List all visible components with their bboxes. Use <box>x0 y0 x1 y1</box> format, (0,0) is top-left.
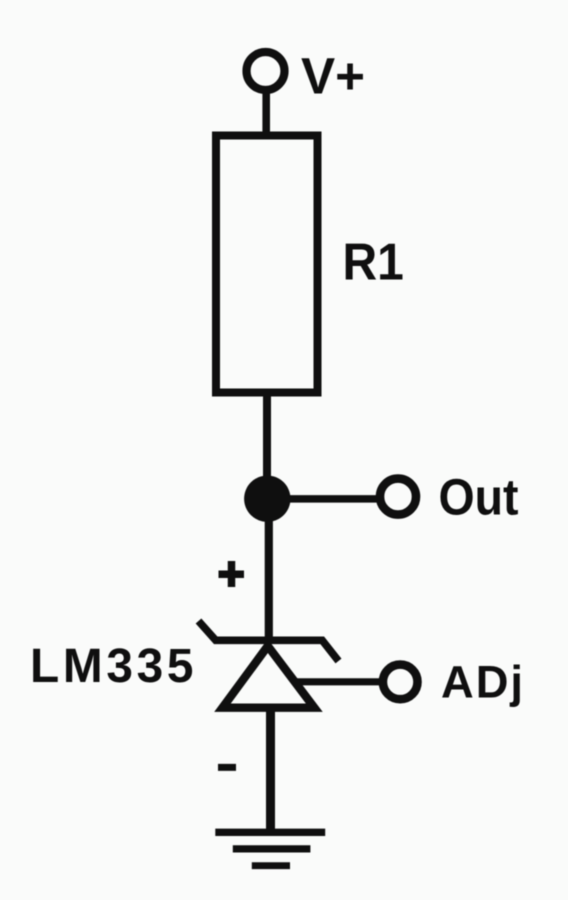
LM335 diode triangle <box>223 646 315 708</box>
wire node to LM335 cathode <box>265 499 273 641</box>
svg-text:R1: R1 <box>343 232 404 290</box>
minus sign <box>218 764 236 771</box>
node junction <box>244 476 290 522</box>
wire anode to ground <box>266 708 275 834</box>
wire V+ to R1 <box>262 92 270 136</box>
svg-text:LM335: LM335 <box>30 640 194 693</box>
terminal V+ <box>247 52 285 90</box>
svg-text:Out: Out <box>439 468 519 525</box>
terminal ADj <box>383 665 418 700</box>
LM335 cathode bar (zener style) <box>199 621 339 661</box>
terminal Out <box>380 479 416 515</box>
svg-text:ADj: ADj <box>441 657 523 708</box>
wire ADj <box>294 678 381 685</box>
wire node to Out <box>267 495 379 503</box>
wire R1 to node <box>263 393 271 500</box>
ground <box>215 832 325 865</box>
plus sign <box>219 561 245 587</box>
svg-text:V+: V+ <box>301 48 365 105</box>
resistor R1 <box>216 136 318 393</box>
